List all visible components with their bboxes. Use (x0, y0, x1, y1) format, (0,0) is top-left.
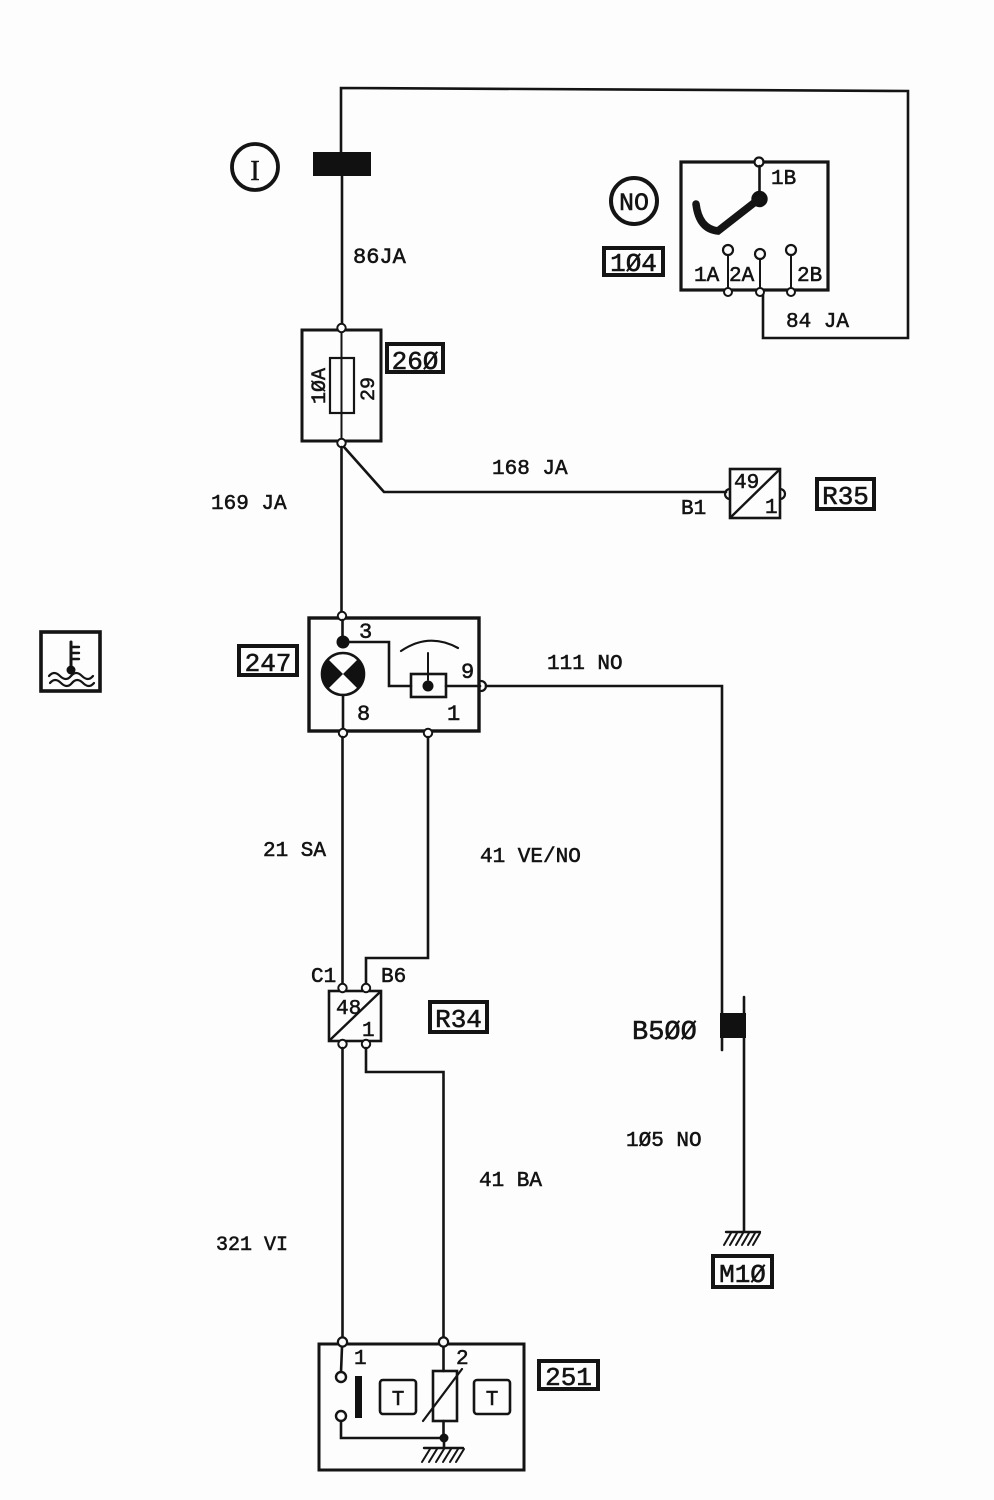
svg-text:41 VE/NO: 41 VE/NO (480, 846, 581, 869)
pin 2A (729, 249, 765, 296)
label 321 VI (216, 1234, 288, 1257)
label 41 BA (479, 1170, 542, 1193)
wire lamp to pin 8 (342, 695, 345, 730)
svg-text:247: 247 (245, 649, 292, 679)
svg-text:T: T (486, 1389, 499, 1412)
gauge element (rect with dot and needle) (411, 653, 446, 697)
wire 168 JA from fuse to connector R35 (344, 447, 726, 492)
svg-text:1Ø5 NO: 1Ø5 NO (626, 1130, 702, 1153)
T box right (474, 1380, 510, 1414)
label box M10 (713, 1256, 772, 1290)
pin top of fuse 260 (337, 324, 345, 332)
internal ground of 251 (422, 1438, 464, 1462)
node B6 (381, 966, 406, 989)
thermistor (variable resistor) (423, 1347, 462, 1438)
svg-text:26Ø: 26Ø (392, 347, 439, 377)
wire top feed from connector I up and across to ignition switch branch (341, 88, 908, 338)
label 84 JA (786, 311, 849, 334)
svg-text:C1: C1 (311, 966, 336, 989)
svg-text:1: 1 (354, 1348, 367, 1371)
label box R34 (430, 1002, 487, 1035)
gauge unit 247 (309, 618, 479, 731)
label box 251 (539, 1361, 598, 1393)
ignition switch 104 (681, 162, 828, 290)
connector B500 (black block) (720, 997, 746, 1231)
svg-text:49: 49 (734, 472, 759, 495)
node I (circle with serif I) (232, 144, 278, 190)
pin bottom of fuse 260 (337, 439, 345, 447)
pin B6 top (362, 984, 370, 992)
svg-text:R34: R34 (435, 1005, 482, 1035)
pin 2 of 251 (439, 1337, 469, 1371)
label 169 JA (211, 493, 287, 516)
svg-text:1: 1 (765, 497, 778, 520)
svg-text:9: 9 (461, 660, 474, 685)
svg-text:B6: B6 (381, 966, 406, 989)
svg-text:B1: B1 (681, 498, 706, 521)
svg-text:8: 8 (357, 702, 370, 727)
pin bottom right of R34 (362, 1040, 370, 1048)
pin 1 (424, 702, 460, 737)
pin number 29 (rotated) (358, 377, 381, 401)
svg-text:I: I (250, 156, 259, 187)
wire 321 VI to sensor 251 pin 1 (341, 1048, 344, 1338)
label box 260 (387, 344, 443, 377)
wire 111 NO from pin 9 to B500 (486, 686, 722, 1050)
svg-text:1B: 1B (771, 168, 796, 191)
internal wire to gauge element (349, 642, 411, 686)
node B1 (681, 498, 706, 521)
connector R35 (49/1) (725, 469, 785, 520)
connector R34 (48/1) (329, 991, 381, 1043)
svg-text:1A: 1A (694, 265, 720, 288)
T box left (380, 1380, 416, 1414)
svg-text:1ØA: 1ØA (309, 368, 332, 404)
node NO (611, 178, 657, 224)
warning lamp (circle with quadrants) (322, 653, 364, 695)
pin 3 (338, 612, 372, 645)
coolant temperature icon (41, 632, 100, 691)
junction dot pin3 (337, 620, 350, 649)
svg-text:29: 29 (358, 377, 381, 401)
gauge scale arc (401, 641, 458, 651)
pin 1B (755, 158, 797, 192)
svg-text:2: 2 (456, 1348, 469, 1371)
node C1 (311, 966, 336, 989)
label 41 VE/NO (480, 846, 581, 869)
pin 9 (446, 660, 486, 691)
svg-text:21 SA: 21 SA (263, 840, 326, 863)
thermal switch contacts (336, 1347, 362, 1421)
wire from switch to ground node (341, 1421, 444, 1438)
wire 41 VE/NO from pin 1 to B6 (366, 737, 428, 984)
label box 247 (239, 646, 297, 679)
svg-text:2B: 2B (797, 265, 822, 288)
svg-text:84 JA: 84 JA (786, 311, 849, 334)
svg-text:41 BA: 41 BA (479, 1170, 542, 1193)
label 105 NO (626, 1130, 702, 1153)
switch lever (696, 166, 768, 231)
svg-text:NO: NO (619, 189, 649, 218)
svg-text:48: 48 (336, 998, 361, 1021)
label 168 JA (492, 458, 568, 481)
pin 2B (786, 245, 822, 296)
svg-text:86JA: 86JA (353, 245, 407, 270)
wire 86JA from block down to fuse 260 (341, 176, 344, 326)
fuse box 260 (302, 330, 381, 441)
wire 21 SA from pin 8 to C1 (341, 737, 344, 984)
ground M10 (724, 1232, 760, 1245)
svg-text:B5ØØ: B5ØØ (632, 1018, 697, 1048)
svg-text:M1Ø: M1Ø (719, 1260, 766, 1290)
svg-text:321 VI: 321 VI (216, 1234, 288, 1257)
svg-text:R35: R35 (822, 482, 869, 512)
label box 104 (604, 248, 663, 279)
wire 41 BA to sensor 251 pin 2 (366, 1048, 444, 1338)
pin bottom left of R34 (338, 1040, 346, 1048)
svg-text:111 NO: 111 NO (547, 653, 623, 676)
junction dot ground node (440, 1434, 449, 1443)
svg-text:1: 1 (447, 702, 460, 727)
pin C1 top (338, 984, 346, 992)
pin 8 (339, 702, 370, 737)
label B500 (632, 1018, 697, 1048)
wire 169 JA from fuse down to gauge 247 (340, 447, 343, 612)
label 86JA (353, 245, 407, 270)
label 21 SA (263, 840, 326, 863)
label box R35 (817, 479, 874, 512)
label 111 NO (547, 653, 623, 676)
svg-text:T: T (392, 1389, 405, 1412)
svg-text:168 JA: 168 JA (492, 458, 568, 481)
connector (black block) on wire 86JA (313, 152, 371, 176)
svg-text:169 JA: 169 JA (211, 493, 287, 516)
pin 1 of 251 (338, 1337, 367, 1371)
sensor unit 251 (319, 1344, 524, 1470)
pin 1A (694, 245, 733, 296)
value 10A (rotated) (309, 368, 332, 404)
svg-text:2A: 2A (729, 265, 755, 288)
svg-text:251: 251 (545, 1363, 592, 1393)
svg-text:1Ø4: 1Ø4 (610, 249, 657, 279)
